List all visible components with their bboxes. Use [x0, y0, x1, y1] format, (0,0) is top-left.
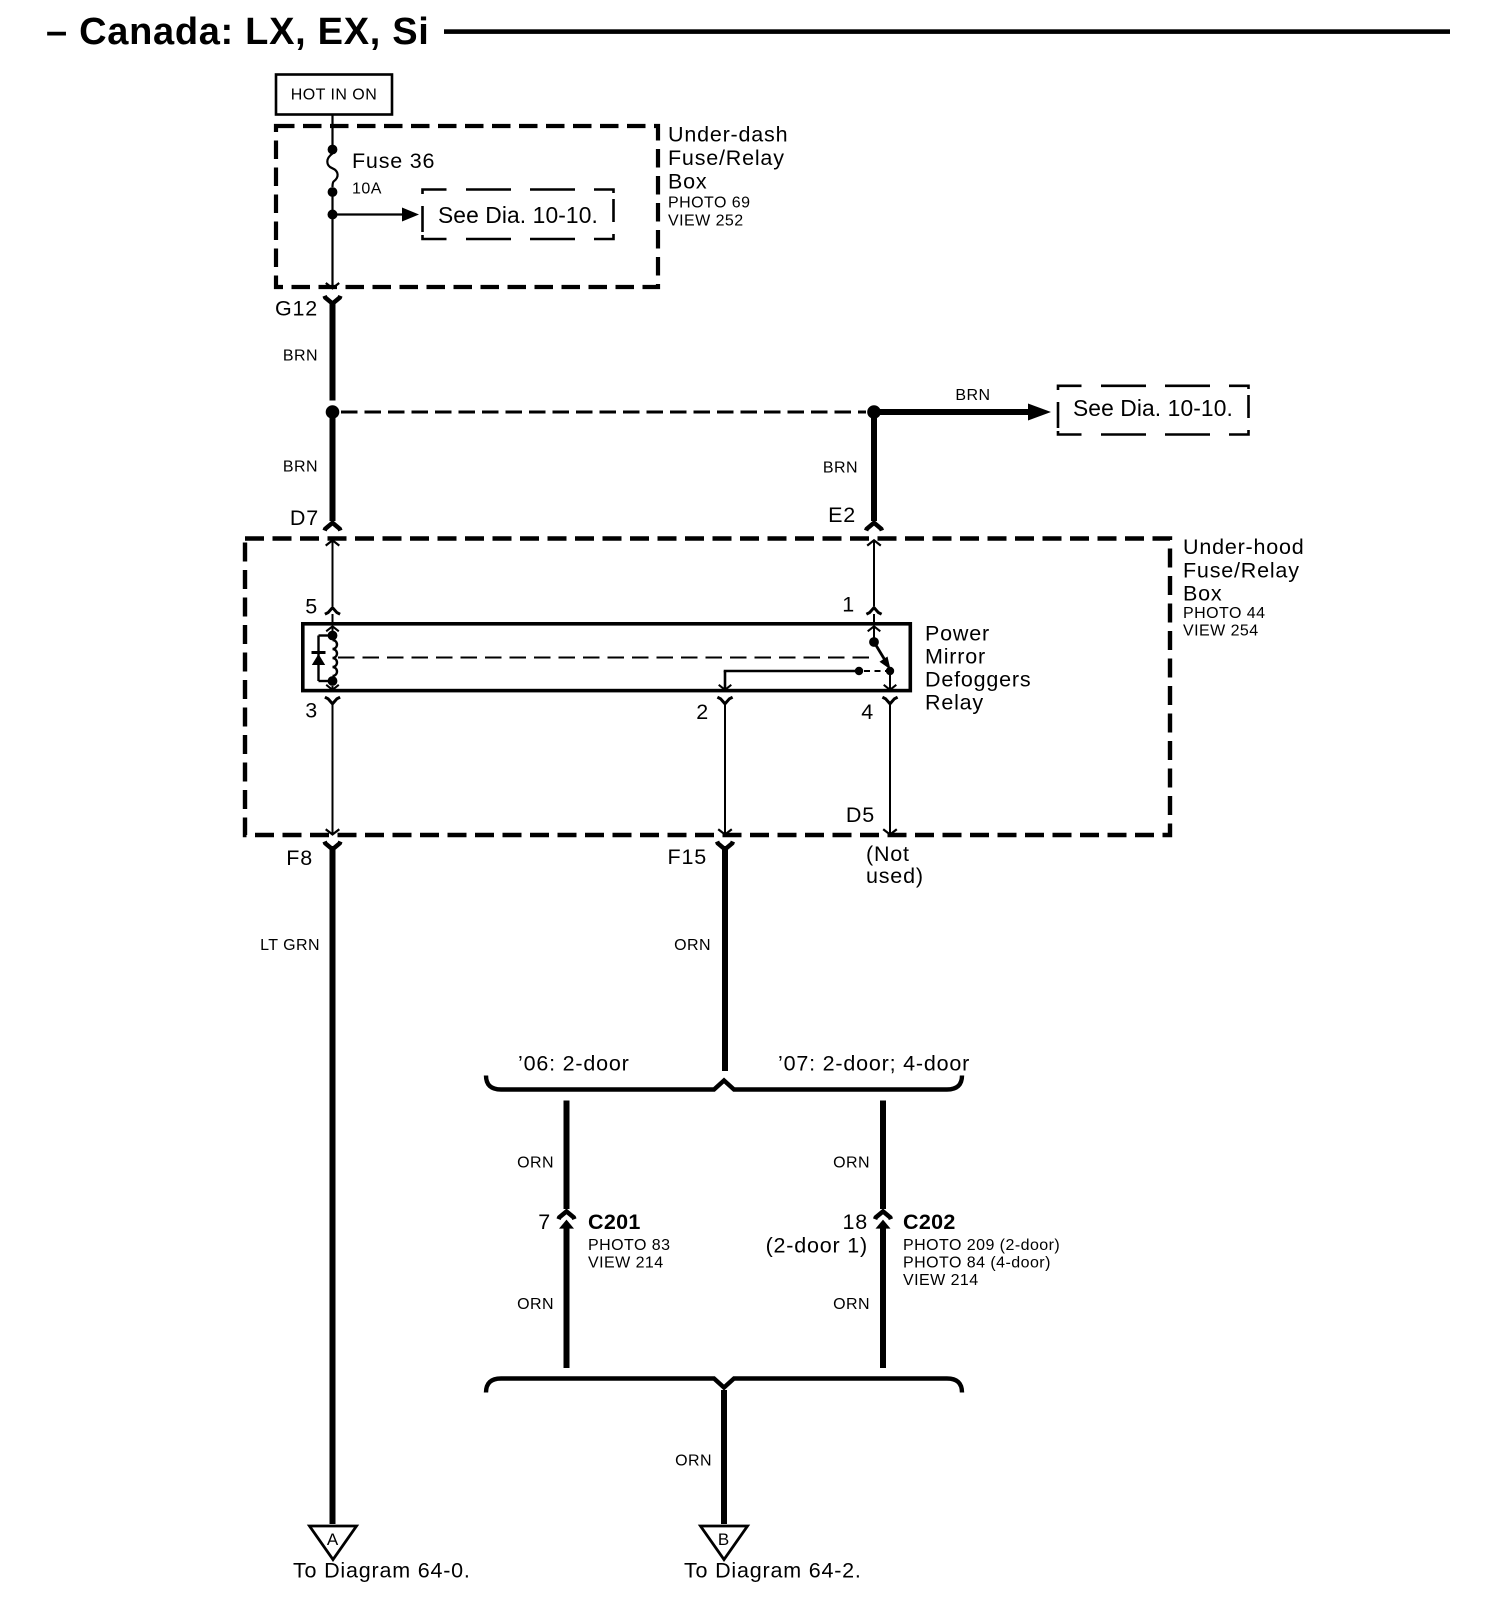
node: fuse bottom — [328, 187, 338, 197]
wire BRN: G12 to junction — [283, 301, 333, 401]
dashed contact gap — [864, 670, 886, 672]
node: tap to See Dia. 10-10. — [328, 210, 338, 220]
title rule line — [444, 29, 1450, 34]
wire: pin 4 down inside relay — [889, 675, 891, 690]
under-dash fuse/relay box (dashed) — [276, 126, 658, 287]
wire: HOT IN ON to fuse — [331, 115, 333, 146]
svg-text:ORN: ORN — [833, 1155, 870, 1172]
svg-text:7: 7 — [538, 1210, 551, 1234]
wire: tap down to G12 — [331, 215, 333, 289]
relay pin 2 male arrow inside — [719, 685, 732, 690]
wire BRN: junction right to E2 — [823, 418, 874, 521]
svg-text:BRN: BRN — [283, 348, 318, 365]
under-dash box labels — [668, 123, 788, 230]
svg-text:VIEW 214: VIEW 214 — [588, 1255, 664, 1272]
svg-text:VIEW 214: VIEW 214 — [903, 1272, 979, 1289]
box: HOT IN ON — [276, 75, 392, 115]
svg-text:3: 3 — [305, 699, 318, 723]
svg-text:E2: E2 — [828, 503, 856, 527]
svg-text:– Canada: LX, EX, Si: – Canada: LX, EX, Si — [46, 11, 430, 53]
wire: pin 3 to F8 — [332, 702, 334, 834]
connector arrow (male) at box bottom, F15 — [718, 829, 732, 834]
connector E2 (female) — [828, 503, 882, 531]
svg-text:Box: Box — [1183, 582, 1222, 606]
svg-text:ORN: ORN — [675, 1453, 712, 1470]
svg-text:ORN: ORN — [674, 937, 711, 954]
wire ORN: C201 down — [517, 1227, 566, 1368]
wire ORN: branch to C201 — [517, 1101, 566, 1210]
svg-text:2: 2 — [696, 700, 709, 724]
wire ORN: C202 down — [833, 1227, 883, 1368]
connector arrow (male) at box bottom, D5 — [883, 829, 897, 834]
wire: pin 2 riser and link to contact — [724, 671, 856, 690]
svg-text:F15: F15 — [668, 845, 707, 869]
svg-text:PHOTO 83: PHOTO 83 — [588, 1237, 670, 1254]
wire ORN: branch to C202 — [833, 1101, 883, 1210]
svg-text:B: B — [718, 1530, 729, 1549]
node: coil top — [328, 631, 338, 641]
off-page connector B — [684, 1526, 862, 1583]
connector arrow (male) at box top, E2 side — [867, 540, 881, 545]
connector D7 (female) — [290, 506, 340, 531]
relay pin 1 connector (female chevron) — [842, 593, 881, 617]
svg-text:ORN: ORN — [833, 1296, 870, 1313]
relay pin 5 male arrow inside — [326, 626, 339, 631]
svg-text:Fuse/Relay: Fuse/Relay — [1183, 559, 1300, 583]
wire LT GRN: F8 to A — [260, 846, 332, 1524]
wire ORN: bracket to B — [675, 1390, 724, 1524]
svg-text:F8: F8 — [286, 846, 313, 870]
svg-text:Power: Power — [925, 622, 990, 646]
svg-text:PHOTO 209 (2-door): PHOTO 209 (2-door) — [903, 1237, 1060, 1254]
connector arrow (male) at under-dash box exit — [326, 283, 339, 288]
svg-text:PHOTO 84 (4-door): PHOTO 84 (4-door) — [903, 1255, 1051, 1272]
svg-text:Fuse 36: Fuse 36 — [352, 149, 435, 173]
under-hood fuse/relay box (dashed) — [245, 539, 1170, 836]
svg-text:Under-hood: Under-hood — [1183, 535, 1305, 559]
svg-text:(Not: (Not — [866, 842, 910, 866]
svg-text:D5: D5 — [846, 803, 875, 827]
branch bracket bottom — [486, 1379, 962, 1393]
svg-text:To Diagram 64-0.: To Diagram 64-0. — [293, 1559, 471, 1583]
connector F15 (female) — [668, 842, 733, 870]
off-page connector A — [293, 1526, 471, 1583]
node: coil bottom — [328, 676, 338, 686]
svg-text:C202: C202 — [903, 1210, 956, 1234]
svg-text:G12: G12 — [275, 297, 318, 321]
svg-text:LT GRN: LT GRN — [260, 937, 320, 954]
node: fuse top — [328, 145, 338, 155]
relay pin 2 connector (female chevron) — [696, 697, 732, 724]
wire: fuse to tap node — [331, 192, 333, 214]
svg-text:used): used) — [866, 864, 924, 888]
diode across coil — [312, 636, 329, 682]
svg-text:18: 18 — [842, 1210, 868, 1234]
svg-text:10A: 10A — [352, 181, 382, 198]
connector C201 pin 7 (female+male) — [538, 1210, 670, 1272]
wire (dashed): junction left to junction right — [341, 410, 866, 413]
svg-text:Under-dash: Under-dash — [668, 123, 788, 147]
svg-text:Relay: Relay — [925, 691, 984, 715]
svg-text:PHOTO 69: PHOTO 69 — [668, 195, 750, 212]
svg-text:PHOTO 44: PHOTO 44 — [1183, 605, 1265, 622]
svg-text:5: 5 — [305, 595, 318, 619]
node: switch common — [869, 637, 879, 647]
wire: pin 2 to F15 — [724, 702, 726, 834]
wire arrow: tap to See Dia. 10-10. — [333, 208, 420, 222]
svg-text:(2-door 1): (2-door 1) — [766, 1234, 868, 1258]
terminal D5 label — [846, 803, 924, 888]
svg-text:4: 4 — [861, 700, 874, 724]
svg-text:’07: 2-door; 4-door: ’07: 2-door; 4-door — [778, 1052, 970, 1076]
relay switch arm with arrowhead — [874, 642, 891, 670]
svg-text:VIEW 254: VIEW 254 — [1183, 623, 1259, 640]
svg-text:ORN: ORN — [517, 1155, 554, 1172]
svg-text:C201: C201 — [588, 1210, 641, 1234]
node: BRN junction left — [326, 405, 340, 419]
relay pin 3 male arrow inside — [332, 686, 334, 690]
svg-text:BRN: BRN — [823, 460, 858, 477]
node: contact end — [855, 667, 863, 675]
svg-text:Defoggers: Defoggers — [925, 668, 1031, 692]
svg-text:D7: D7 — [290, 506, 319, 530]
wire: pin 4 to D5 — [889, 702, 891, 834]
node: switch contact pin 4 — [886, 667, 894, 675]
svg-text:Box: Box — [668, 170, 707, 194]
wire ORN: F15 to branch — [674, 846, 725, 1071]
connector arrow (male) at box top, D7 side — [326, 540, 340, 545]
svg-text:To Diagram 64-2.: To Diagram 64-2. — [684, 1559, 862, 1583]
connector F8 (female) — [286, 842, 340, 871]
See Dia. 10-10. dashed box (upper) — [423, 190, 614, 240]
relay pin 5 connector (female chevron) — [305, 595, 340, 619]
relay internal dashed link (coil to switch) — [338, 657, 874, 659]
svg-text:Fuse/Relay: Fuse/Relay — [668, 146, 785, 170]
title: Canada: LX, EX, Si — [46, 11, 430, 53]
relay pin 1 male arrow inside — [868, 626, 881, 631]
svg-text:BRN: BRN — [955, 387, 990, 404]
connector arrow (male) at box bottom, F8 — [326, 829, 340, 834]
svg-text:’06: 2-door: ’06: 2-door — [518, 1052, 630, 1076]
See Dia. 10-10. dashed box (right) — [1058, 386, 1249, 435]
connector C202 pin 18 (female+male) — [766, 1210, 1061, 1289]
svg-text:ORN: ORN — [517, 1296, 554, 1313]
wire: D7 to relay pin 5 — [332, 540, 334, 606]
svg-text:Mirror: Mirror — [925, 645, 986, 669]
wire arrow BRN: junction to See Dia. 10-10. (right) — [874, 387, 1051, 421]
svg-text:VIEW 252: VIEW 252 — [668, 213, 744, 230]
relay pin 3 connector (female chevron) — [305, 697, 340, 722]
svg-text:A: A — [327, 1530, 339, 1549]
relay pin 4 connector (female chevron) — [861, 697, 897, 724]
branch bracket top — [486, 1076, 962, 1090]
under-hood box labels — [1183, 535, 1305, 640]
relay U: power mirror defoggers relay box — [303, 622, 1032, 715]
svg-text:1: 1 — [842, 593, 855, 617]
relay pin 4 male arrow inside — [884, 685, 897, 690]
svg-text:BRN: BRN — [283, 459, 318, 476]
relay coil — [333, 640, 338, 676]
wire BRN: junction to D7 — [283, 418, 333, 521]
fuse F36 (Fuse 36 10A) — [327, 149, 435, 198]
connector G12 (female) — [275, 296, 340, 321]
node: BRN junction right — [867, 405, 881, 419]
wire: E2 to relay pin 1 — [873, 540, 875, 606]
svg-text:See Dia. 10-10.: See Dia. 10-10. — [438, 202, 598, 228]
svg-text:See Dia. 10-10.: See Dia. 10-10. — [1073, 395, 1233, 421]
svg-text:HOT IN ON: HOT IN ON — [291, 87, 377, 104]
